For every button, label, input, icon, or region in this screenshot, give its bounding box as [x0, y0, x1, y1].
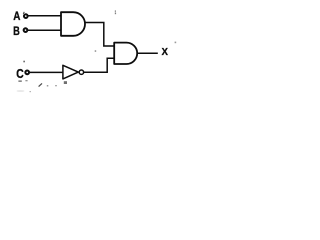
scan speck above C	[23, 61, 25, 63]
AND gate U2 (output stage)	[114, 43, 137, 64]
wire A to AND gate	[28, 15, 62, 17]
input A label	[13, 10, 20, 23]
wire U3 output to U2 bottom input (right, up, right)	[84, 58, 115, 72]
input B label	[13, 25, 20, 39]
scan ghost under C	[18, 80, 21, 82]
scan tick bottom (diagonal)	[39, 83, 42, 86]
scan speck bottom mid	[55, 85, 57, 86]
scan tick at terminal A	[23, 12, 24, 14]
terminal B	[24, 28, 28, 32]
inverter U3 triangle	[63, 65, 78, 79]
scan speck bottom middle	[47, 85, 49, 87]
wire C to inverter	[30, 71, 63, 73]
input C label	[16, 66, 24, 82]
terminal A	[24, 14, 28, 18]
wire U2 output to X	[137, 52, 158, 54]
AND gate U1 (inputs A,B)	[61, 12, 85, 36]
scan speck right of X	[175, 42, 177, 44]
scan speck: colon marks above U2	[115, 10, 116, 14]
svg-text:B: B	[13, 25, 20, 39]
svg-text:X: X	[162, 47, 169, 58]
wire B to AND gate	[28, 29, 62, 31]
wire U1 output to U2 top input (right, down, right)	[85, 23, 115, 47]
terminal C	[25, 71, 29, 75]
scan ghost under C terminal	[25, 80, 27, 81]
svg-text:A: A	[13, 10, 20, 23]
scan speck below inverter	[64, 81, 67, 84]
inverter U3 output bubble	[79, 70, 83, 74]
scan smudge bottom	[17, 90, 25, 92]
svg-text:C: C	[16, 66, 24, 82]
output X label	[162, 47, 169, 58]
scan speck bottom left small	[30, 91, 31, 92]
scan speck left of U2	[95, 50, 97, 52]
